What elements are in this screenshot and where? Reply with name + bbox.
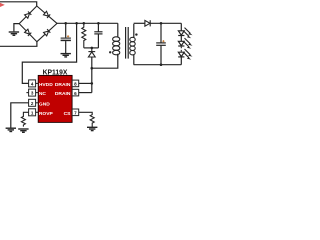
wire: GND pin to ground bbox=[11, 103, 29, 128]
svg-text:2: 2 bbox=[31, 101, 34, 106]
wire: top AC input line bbox=[0, 2, 37, 6]
wire: DRAIN pin 6 stub bbox=[79, 92, 92, 94]
wire bbox=[180, 36, 182, 42]
diode D1 (L-T arm) bbox=[25, 11, 32, 18]
pin 7 bbox=[72, 109, 79, 116]
wire: NC stub bbox=[26, 92, 28, 94]
diode D6 (output rectifier) bbox=[145, 20, 150, 26]
node: drain junction bbox=[91, 67, 94, 70]
diode D2 (T-R arm) bbox=[43, 11, 50, 18]
pin 6 bbox=[72, 89, 79, 96]
resistor R3 (CS) bbox=[79, 112, 95, 127]
svg-text:DRAIN: DRAIN bbox=[55, 91, 71, 97]
wire: bottom AC input line bbox=[0, 42, 37, 47]
secondary polarity dot bbox=[135, 33, 137, 35]
op-amp U1 (KP119X controller) bbox=[26, 68, 78, 123]
primary polarity dot bbox=[109, 51, 111, 53]
diode D5 (clamp, pointing up) bbox=[88, 48, 95, 68]
svg-text:7: 7 bbox=[74, 111, 77, 116]
wire: HVDD feed (rail to pin 4) bbox=[22, 23, 76, 83]
node: DRAIN stub junction bbox=[91, 82, 94, 85]
svg-text:NC: NC bbox=[39, 91, 47, 97]
svg-text:ROVP: ROVP bbox=[39, 111, 54, 117]
svg-text:3: 3 bbox=[31, 91, 34, 96]
svg-text:6: 6 bbox=[74, 91, 77, 96]
node: R1 junction bbox=[83, 22, 86, 25]
pin 1 bbox=[29, 109, 36, 116]
capacitor C2 (snubber) bbox=[94, 23, 102, 48]
node: HVDD feed junction bbox=[75, 22, 78, 25]
svg-text:HVDD: HVDD bbox=[39, 82, 53, 88]
resistor R1 (snubber) bbox=[82, 23, 86, 48]
wire: output bottom rail bbox=[134, 64, 182, 66]
resistor R2 (ROVP) bbox=[21, 112, 28, 126]
transformer T1 bbox=[109, 23, 138, 64]
ground (R3) bbox=[87, 127, 97, 130]
node: C2 junction bbox=[97, 22, 100, 25]
capacitor C3 (output) bbox=[156, 23, 166, 64]
node: cap top junction bbox=[160, 22, 163, 25]
svg-text:4: 4 bbox=[31, 82, 34, 87]
pin 8 bbox=[72, 80, 79, 87]
pin 3 bbox=[29, 89, 36, 96]
wire: secondary top to diode bbox=[134, 22, 145, 24]
wire: drain net bbox=[92, 54, 118, 68]
svg-text:CS: CS bbox=[64, 111, 72, 117]
node: AC input L (red arrow) bbox=[0, 3, 5, 7]
pin 4 bbox=[29, 80, 36, 87]
node: C1 junction bbox=[64, 22, 67, 25]
wire: drain vertical to pins bbox=[91, 68, 93, 92]
pin labels bbox=[39, 82, 71, 117]
wire bbox=[180, 57, 182, 65]
ground (bridge negative) bbox=[9, 24, 20, 36]
diode D4 (B-R arm) bbox=[44, 29, 51, 36]
ground (C1) bbox=[61, 54, 71, 57]
svg-text:1: 1 bbox=[31, 110, 34, 115]
LED1 bbox=[178, 28, 192, 39]
svg-text:GND: GND bbox=[39, 102, 50, 108]
ground (R2) bbox=[18, 129, 28, 132]
svg-text:8: 8 bbox=[74, 82, 77, 87]
bridge rectifier BD1 bbox=[19, 6, 57, 42]
wire: LED top lead bbox=[180, 23, 182, 30]
node: snubber-diode junction bbox=[91, 47, 94, 50]
diode D3 (L-B arm) bbox=[25, 29, 32, 36]
C3 polarity mark bbox=[162, 40, 164, 42]
core bbox=[125, 27, 127, 59]
C1 polarity mark bbox=[67, 35, 69, 37]
ground (GND pin) bbox=[6, 128, 16, 131]
primary winding bbox=[117, 23, 119, 37]
node: cap bottom junction bbox=[160, 63, 163, 66]
pin 2 bbox=[29, 99, 36, 106]
wire: DRAIN pin 8 stub bbox=[79, 82, 92, 84]
svg-text:DRAIN: DRAIN bbox=[55, 82, 71, 88]
wire: output top rail bbox=[150, 22, 181, 24]
wire: dashed (more LEDs) bbox=[180, 47, 182, 52]
capacitor C1 (input bulk) bbox=[61, 23, 71, 53]
wire: snubber join bar bbox=[84, 47, 99, 49]
wire: DC+ rail bbox=[57, 22, 118, 24]
LED2 bbox=[178, 38, 192, 49]
secondary winding bbox=[133, 24, 135, 38]
LED3 bbox=[178, 49, 192, 60]
